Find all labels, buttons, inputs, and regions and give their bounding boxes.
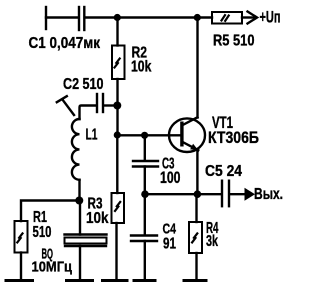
wire R3 to ground: [115, 223, 117, 281]
node E (base junction): [114, 131, 121, 138]
wire node A down to R2: [116, 18, 118, 46]
resistor R3: [112, 193, 125, 223]
input terminal: [45, 7, 47, 29]
node B (top right junction): [194, 14, 201, 21]
capacitor C1: [78, 7, 80, 30]
svg-text:Вых.: Вых.: [254, 186, 283, 203]
node H (emitter/output junction): [194, 190, 202, 198]
ground (crystal): [65, 279, 94, 282]
resistor R1: [15, 221, 28, 253]
trimmer arrow for L1: [57, 96, 74, 115]
svg-text:10МГц: 10МГц: [32, 259, 73, 276]
capacitor C4: [131, 234, 157, 236]
svg-text:C5 24: C5 24: [205, 163, 242, 180]
node F (C3 junction): [141, 132, 148, 139]
wire input to C1: [46, 16, 78, 18]
svg-text:C2 510: C2 510: [63, 76, 104, 93]
capacitor C5: [221, 181, 223, 207]
ground (R4): [183, 279, 208, 282]
wire R1 to ground: [20, 253, 22, 281]
wire R5 to +Un arrow: [242, 16, 254, 18]
wire C4 to ground: [144, 241, 146, 281]
wire base line: [117, 134, 181, 136]
wire node D to crystal: [79, 201, 81, 235]
wire C2 to L1: [80, 106, 97, 120]
wire C5 to output arrow: [231, 193, 247, 195]
wire node D to R1: [21, 201, 79, 222]
+Un arrow: [248, 12, 258, 24]
capacitor C2: [96, 94, 98, 112]
svg-text:510: 510: [33, 224, 52, 241]
wire C3 to node G: [144, 167, 146, 195]
svg-text:+Uп: +Uп: [260, 9, 281, 27]
wire node C to C2: [104, 104, 117, 106]
wire node H to R4: [195, 194, 197, 222]
wire emitter to node H: [196, 150, 198, 194]
svg-text:КТ306Б: КТ306Б: [208, 129, 259, 147]
ground (R3): [101, 279, 129, 282]
svg-text:3k: 3k: [206, 233, 218, 250]
svg-text:R5 510: R5 510: [213, 33, 255, 50]
inductor L1: [72, 119, 80, 180]
resistor R2: [112, 46, 125, 80]
node G (C3/C4/output junction): [141, 190, 149, 198]
wire node G to C4: [144, 194, 146, 235]
capacitor C3: [133, 160, 158, 162]
node D (coil/crystal/R1 junction): [75, 197, 83, 205]
transistor VT1: [169, 117, 205, 152]
wire L1 to node D: [78, 180, 80, 201]
wire R4 to ground: [195, 253, 197, 281]
svg-text:L1: L1: [86, 127, 98, 144]
ground (C4): [133, 279, 157, 282]
wire C1 to R5 (top rail): [86, 16, 212, 18]
wire crystal to ground: [79, 246, 81, 281]
resistor R5: [212, 12, 242, 24]
wire node E down to R3: [116, 135, 118, 193]
wire collector to node B: [196, 18, 198, 118]
wire node G to C5: [145, 193, 221, 195]
crystal BQ: [65, 235, 107, 247]
node C (C2 junction): [113, 102, 121, 110]
output arrow: [245, 188, 256, 201]
svg-text:100: 100: [160, 169, 181, 187]
node A (top left junction): [114, 14, 121, 21]
wire node F down to C3: [144, 135, 146, 160]
svg-text:C1 0,047мк: C1 0,047мк: [29, 35, 101, 52]
svg-text:10k: 10k: [131, 58, 151, 75]
wire R2 to node C: [116, 79, 118, 135]
ground (R1): [5, 279, 35, 282]
svg-text:91: 91: [163, 236, 176, 253]
svg-text:10k: 10k: [86, 210, 109, 227]
resistor R4: [189, 222, 202, 253]
